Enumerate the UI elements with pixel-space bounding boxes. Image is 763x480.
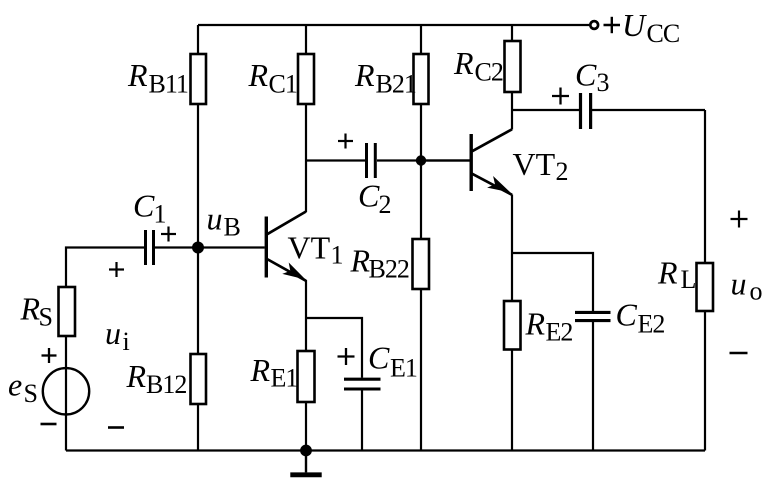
label minus e_S xyxy=(41,423,57,426)
wire left branch R_B11 top xyxy=(197,25,199,55)
capacitor C2 xyxy=(367,143,376,178)
label plus C3 xyxy=(552,88,569,105)
wire R_E1 bottom to ground node xyxy=(305,401,307,451)
resistor R_B11 xyxy=(191,54,207,104)
wire C_E1 bottom lead xyxy=(361,390,363,451)
label plus e_S xyxy=(42,348,57,363)
wire R_B21 bottom to node to R_B22 top xyxy=(420,103,422,240)
wire VT1 emitter down to R_E1 xyxy=(305,280,307,352)
label plus C_E1 xyxy=(338,348,355,365)
label plus u_o xyxy=(731,211,748,228)
resistor R_B21 xyxy=(414,54,429,104)
wire bottom ground rail xyxy=(66,449,705,451)
wire R_B22 bottom to ground rail xyxy=(420,288,422,451)
wire C_E2 bottom lead xyxy=(592,322,594,451)
resistor R_C1 xyxy=(298,54,314,104)
node ground junction dot xyxy=(300,445,312,457)
transistor VT2 xyxy=(471,129,512,195)
wire R_C1 top xyxy=(305,25,307,55)
capacitor C3 xyxy=(581,93,591,129)
wire R_B12 bottom to ground rail xyxy=(197,403,199,451)
label minus u_i xyxy=(108,426,124,429)
wire VT2 emitter down to R_E2 xyxy=(511,195,513,303)
wire emitter tee to C_E2 xyxy=(512,253,593,311)
wire R_C2 top xyxy=(511,25,513,42)
wire VT2 base lead xyxy=(421,159,470,161)
ground xyxy=(290,451,321,475)
wire emitter tee to C_E1 xyxy=(306,318,362,378)
label +U_CC xyxy=(604,17,621,33)
node u_B junction dot xyxy=(192,242,204,254)
wire C2 left lead xyxy=(306,159,365,161)
terminal +U_CC xyxy=(590,21,598,29)
resistor R_B12 xyxy=(191,354,207,404)
resistor R_E2 xyxy=(504,301,521,350)
node base2 junction dot xyxy=(416,155,426,165)
resistor R_E1 xyxy=(298,351,315,402)
wire C3 left lead xyxy=(512,109,579,111)
wire C1 right lead to u_B node xyxy=(155,246,198,248)
resistor R_L xyxy=(697,263,714,311)
label minus u_o xyxy=(730,352,748,355)
capacitor C_E1 xyxy=(344,379,381,389)
wire top rail xyxy=(198,24,589,26)
resistor R_C2 xyxy=(505,41,521,92)
transistor VT1 xyxy=(266,212,306,281)
label plus C1 right xyxy=(161,227,176,242)
wire output branch down to R_L xyxy=(704,110,706,264)
label plus C1 lower xyxy=(109,262,124,277)
wire VT1 base lead xyxy=(198,246,265,248)
wire R_L bottom to ground rail xyxy=(704,310,706,451)
resistor R_B22 xyxy=(413,239,430,289)
wire C2 right lead to node and VT2 base xyxy=(377,159,470,161)
wire R_B11 bottom to u_B node to R_B12 top xyxy=(197,103,199,355)
wire R_B21 top xyxy=(420,25,422,55)
label plus C2 xyxy=(338,134,353,149)
wire C3 right lead to output corner xyxy=(592,109,705,111)
wire source branch top horizontal to C1 xyxy=(66,248,144,451)
capacitor C1 xyxy=(146,230,154,265)
wire R_C1 bottom to VT1 collector xyxy=(305,103,307,212)
capacitor C_E2 xyxy=(575,312,611,320)
resistor R_S xyxy=(59,287,76,336)
wire R_E2 bottom to ground rail xyxy=(511,349,513,451)
source e_S xyxy=(43,368,89,414)
wire R_C2 bottom to C3 tee to VT2 collector xyxy=(511,91,513,130)
